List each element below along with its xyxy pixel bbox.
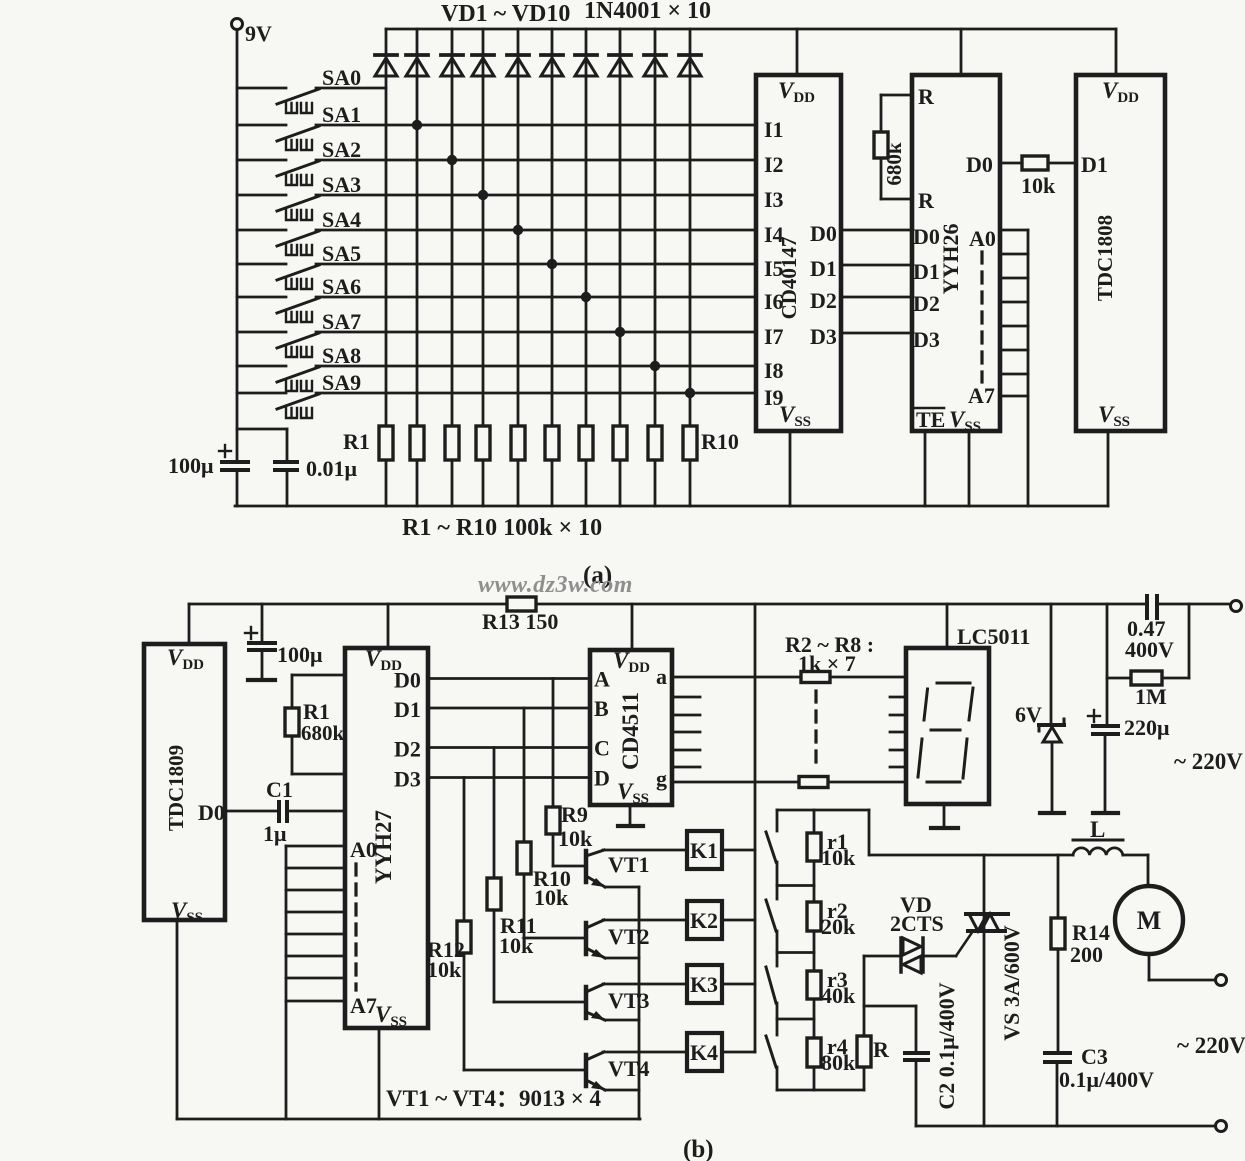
svg-text:SA6: SA6 (322, 274, 361, 299)
svg-text:~ 220V: ~ 220V (1174, 749, 1243, 774)
svg-text:D: D (594, 766, 610, 791)
svg-text:CD4511: CD4511 (618, 692, 643, 770)
svg-text:10k: 10k (427, 957, 462, 982)
svg-text:YYH26: YYH26 (938, 224, 963, 295)
svg-text:10k: 10k (821, 845, 856, 870)
svg-text:D1: D1 (394, 697, 421, 722)
svg-text:220μ: 220μ (1124, 715, 1170, 740)
svg-text:D3: D3 (810, 324, 837, 349)
svg-text:g: g (656, 766, 667, 791)
svg-text:A7: A7 (968, 383, 995, 408)
svg-text:SA7: SA7 (322, 309, 361, 334)
svg-text:SA2: SA2 (322, 137, 361, 162)
svg-text:B: B (594, 696, 609, 721)
svg-text:A0: A0 (969, 226, 996, 251)
svg-text:K2: K2 (690, 908, 718, 933)
svg-text:VT3: VT3 (608, 988, 650, 1013)
svg-text:R1: R1 (343, 429, 370, 454)
svg-text:0.1μ/400V: 0.1μ/400V (1059, 1067, 1154, 1092)
svg-text:1N4001 × 10: 1N4001 × 10 (584, 0, 711, 24)
svg-text:D1: D1 (913, 259, 940, 284)
svg-text:I7: I7 (764, 324, 784, 349)
svg-text:D1: D1 (810, 256, 837, 281)
svg-text:D0: D0 (913, 224, 940, 249)
svg-text:200: 200 (1070, 942, 1103, 967)
svg-text:VS 3A/600V: VS 3A/600V (999, 925, 1024, 1041)
svg-text:I1: I1 (764, 117, 784, 142)
svg-text:100μ: 100μ (168, 453, 214, 478)
svg-text:D3: D3 (394, 767, 421, 792)
svg-text:D0: D0 (198, 800, 225, 825)
svg-text:A0: A0 (350, 837, 377, 862)
svg-text:100μ: 100μ (277, 642, 323, 667)
svg-text:I4: I4 (764, 222, 784, 247)
svg-text:D0: D0 (966, 152, 993, 177)
svg-text:TDC1808: TDC1808 (1093, 215, 1117, 301)
svg-text:K1: K1 (690, 838, 718, 863)
svg-text:SA9: SA9 (322, 370, 361, 395)
svg-text:2CTS: 2CTS (890, 911, 944, 936)
svg-text:SA5: SA5 (322, 241, 361, 266)
svg-text:0.01μ: 0.01μ (306, 456, 358, 481)
svg-text:6V: 6V (1015, 702, 1042, 727)
svg-text:680k: 680k (882, 142, 906, 186)
svg-text:D2: D2 (913, 291, 940, 316)
svg-text:I6: I6 (764, 289, 784, 314)
svg-text:680k: 680k (301, 721, 345, 745)
svg-text:VT1: VT1 (608, 852, 650, 877)
svg-text:10k: 10k (558, 826, 593, 851)
svg-text:SA0: SA0 (322, 65, 361, 90)
svg-text:R10: R10 (701, 429, 739, 454)
svg-text:LC5011: LC5011 (957, 624, 1030, 649)
svg-text:I3: I3 (764, 187, 784, 212)
svg-text:(b): (b) (683, 1136, 714, 1161)
svg-text:20k: 20k (821, 914, 856, 939)
svg-text:I8: I8 (764, 358, 784, 383)
svg-text:80k: 80k (821, 1050, 856, 1075)
svg-text:SA4: SA4 (322, 207, 361, 232)
svg-text:10k: 10k (1021, 173, 1056, 198)
svg-text:10k: 10k (534, 885, 569, 910)
svg-text:1M: 1M (1135, 684, 1167, 709)
svg-text:R1 ~ R10 100k × 10: R1 ~ R10 100k × 10 (402, 515, 602, 541)
svg-text:1μ: 1μ (263, 821, 287, 846)
svg-text:A: A (594, 667, 610, 692)
svg-text:R13 150: R13 150 (482, 609, 558, 634)
svg-text:R: R (873, 1037, 890, 1062)
svg-text:40k: 40k (821, 983, 856, 1008)
svg-text:~ 220V: ~ 220V (1177, 1033, 1245, 1058)
svg-text:R: R (918, 188, 935, 213)
svg-text:I2: I2 (764, 152, 784, 177)
svg-text:www.dz3w.com: www.dz3w.com (478, 572, 633, 598)
svg-text:C3: C3 (1081, 1044, 1108, 1069)
svg-text:C1: C1 (266, 777, 293, 802)
svg-text:I9: I9 (764, 385, 784, 410)
svg-text:VT2: VT2 (608, 924, 650, 949)
svg-text:D1: D1 (1081, 152, 1108, 177)
svg-text:9V: 9V (245, 21, 272, 46)
svg-text:L: L (1090, 817, 1105, 842)
svg-text:R9: R9 (561, 802, 588, 827)
svg-text:VT1 ~ VT4：9013 × 4: VT1 ~ VT4：9013 × 4 (386, 1086, 602, 1111)
svg-text:D2: D2 (810, 288, 837, 313)
svg-text:M: M (1137, 906, 1162, 935)
svg-text:VT4: VT4 (608, 1056, 650, 1081)
svg-text:a: a (656, 664, 667, 689)
svg-text:D0: D0 (810, 221, 837, 246)
svg-text:TDC1809: TDC1809 (164, 745, 188, 831)
svg-text:K4: K4 (690, 1040, 718, 1065)
svg-text:SA1: SA1 (322, 102, 361, 127)
svg-text:I5: I5 (764, 256, 784, 281)
svg-text:SA8: SA8 (322, 343, 361, 368)
svg-text:1k × 7: 1k × 7 (798, 651, 856, 676)
svg-text:D3: D3 (913, 327, 940, 352)
svg-text:SA3: SA3 (322, 172, 361, 197)
svg-text:D0: D0 (394, 668, 421, 693)
svg-text:TE: TE (916, 407, 945, 432)
svg-text:A7: A7 (350, 993, 377, 1018)
svg-text:10k: 10k (499, 933, 534, 958)
svg-text:VD1 ~ VD10: VD1 ~ VD10 (441, 1, 570, 27)
svg-text:C2 0.1μ/400V: C2 0.1μ/400V (934, 982, 959, 1109)
svg-text:R: R (918, 84, 935, 109)
svg-text:400V: 400V (1125, 637, 1174, 662)
svg-text:D2: D2 (394, 737, 421, 762)
svg-text:K3: K3 (690, 972, 718, 997)
svg-text:C: C (594, 736, 610, 761)
